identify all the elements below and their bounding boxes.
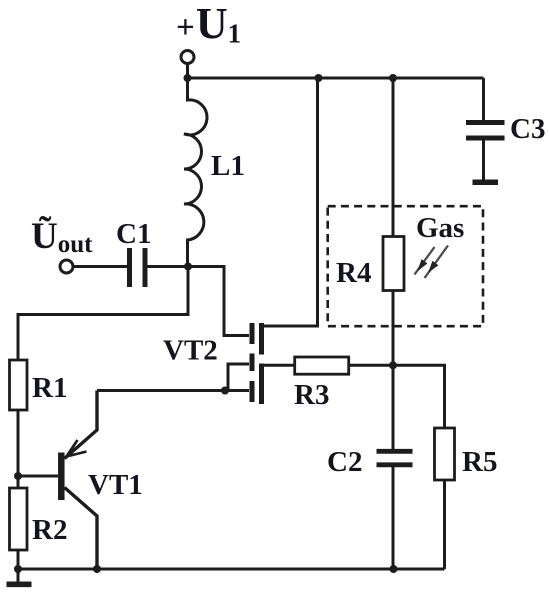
ground — [7, 581, 32, 587]
wire VT1 emitter to VT2 — [97, 389, 249, 392]
wire C1 to node — [148, 265, 189, 268]
junction dot C2/bottom rail — [390, 565, 398, 573]
svg-text:R2: R2 — [32, 514, 67, 546]
transistor VT1 base bar — [58, 453, 65, 501]
junction dot VT1 collector — [93, 565, 101, 573]
transistor VT1 collector — [65, 488, 98, 570]
wire R1 to R2 — [17, 410, 20, 488]
wire Uout to C1 — [73, 265, 127, 268]
capacitor C3 — [466, 123, 505, 139]
svg-text:R4: R4 — [336, 257, 371, 289]
C3 ground bar — [473, 180, 499, 186]
svg-text:R1: R1 — [32, 372, 67, 404]
junction dot ground-left — [14, 565, 22, 573]
svg-text:C3: C3 — [510, 113, 545, 145]
gas influence arrow 1 — [415, 247, 435, 275]
wire node to C2 — [392, 365, 395, 449]
svg-text:VT2: VT2 — [163, 335, 218, 367]
wire VT2 source to R3 — [264, 364, 295, 367]
wire R3 to node — [349, 364, 393, 367]
wire R2 to ground — [17, 550, 20, 582]
junction dot gate2 tie — [221, 387, 229, 395]
svg-text:C2: C2 — [327, 446, 362, 478]
wire VT2 drain — [264, 78, 318, 326]
wire gate2 — [225, 364, 249, 391]
transistor VT2 channel bar top — [259, 323, 264, 355]
junction dot C1/L1 node — [184, 263, 192, 271]
svg-text:C1: C1 — [116, 218, 151, 250]
wire rail to C3 — [482, 78, 485, 121]
wire base — [18, 475, 58, 478]
wire node down-left to R1 — [18, 267, 188, 361]
wire terminal to rail — [186, 64, 189, 79]
wire R4 to node — [392, 291, 395, 366]
transistor VT2 gate bar 2 — [250, 354, 255, 372]
terminal +U1 — [181, 51, 194, 64]
svg-text:Gas: Gas — [416, 212, 464, 244]
transistor VT2 channel bar bottom — [259, 364, 264, 405]
wire bottom rail — [18, 568, 445, 571]
junction dot rail/R4 branch — [389, 74, 397, 82]
wire node to gate1 of VT2 — [188, 267, 249, 336]
wire node to R5 — [393, 365, 445, 428]
junction dot R3/R4/C2/R5 node — [389, 361, 397, 369]
resistor R4 — [383, 237, 404, 291]
resistor R1 — [10, 360, 28, 410]
resistor R5 — [435, 428, 455, 480]
capacitor C1 — [130, 248, 146, 287]
resistor R2 — [10, 488, 28, 550]
junction dot at U1 node — [184, 74, 192, 82]
terminal Uout — [60, 260, 73, 273]
wire top rail — [188, 77, 484, 80]
wire C3 to terminator — [482, 141, 485, 181]
junction dot rail/drain branch — [315, 74, 323, 82]
wire R5 to bottom rail — [443, 480, 446, 569]
junction dot base node — [14, 472, 22, 480]
transistor VT2 gate bar 1 — [250, 323, 255, 344]
transistor VT2 gate bar 3 — [250, 381, 255, 402]
resistor R3 — [295, 357, 349, 374]
svg-text:VT1: VT1 — [88, 469, 143, 501]
svg-text:L1: L1 — [211, 150, 245, 182]
capacitor C2 — [377, 451, 413, 465]
inductor L1 — [184, 78, 207, 267]
transistor VT1 emitter — [65, 391, 98, 459]
transistor VT1 emitter arrow — [67, 440, 87, 457]
wire C2 to bottom rail — [392, 467, 395, 569]
svg-text:R3: R3 — [294, 379, 329, 411]
svg-text:R5: R5 — [462, 446, 497, 478]
gas sensor dashed box — [328, 206, 483, 326]
wire rail to R4 — [392, 78, 395, 237]
gas influence arrow 2 — [425, 246, 449, 279]
